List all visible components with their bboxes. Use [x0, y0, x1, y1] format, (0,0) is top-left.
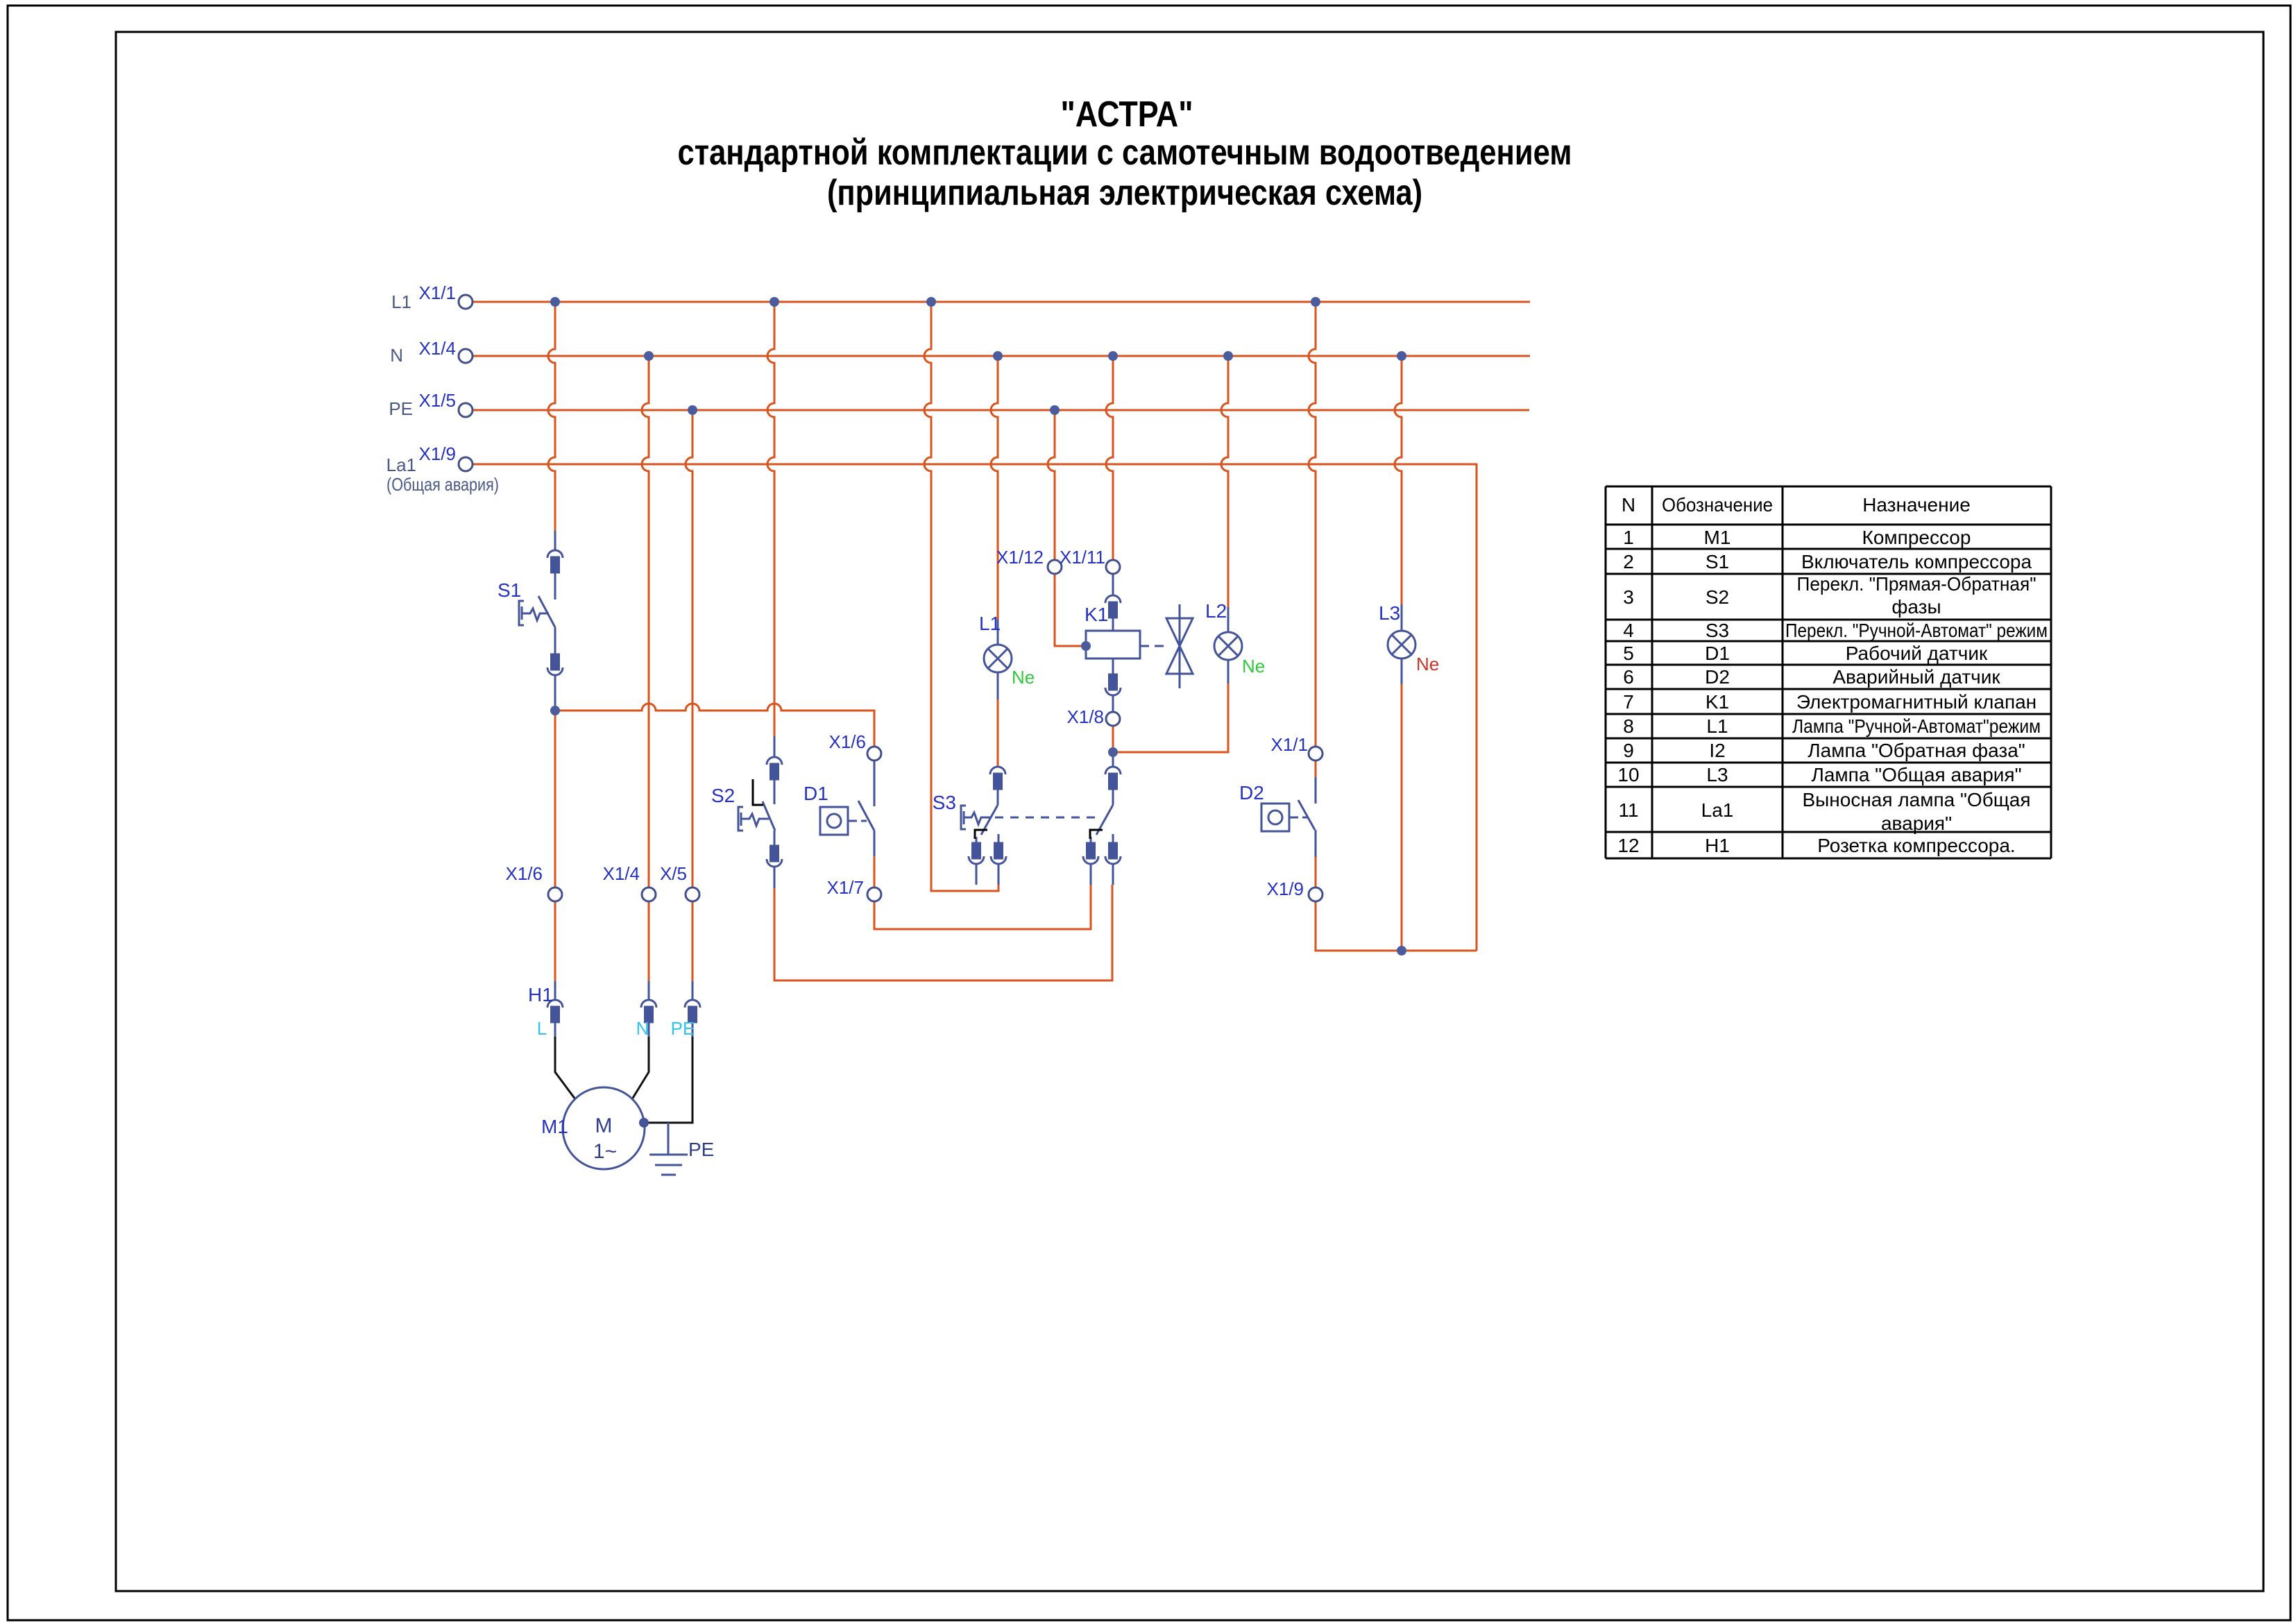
svg-text:"АСТРА": "АСТРА": [1061, 94, 1193, 135]
wire bus La1 with drop to bottom alarm rail: [473, 464, 1477, 951]
svg-text:D2: D2: [1239, 782, 1264, 804]
svg-text:стандартной комплектации с сам: стандартной комплектации с самотечным во…: [678, 133, 1572, 173]
svg-text:L1: L1: [979, 613, 1001, 634]
wire drop x=1342 L1 to S3 left pole contact (hops N,PE,La1): [924, 302, 998, 891]
svg-text:X1/4: X1/4: [419, 338, 457, 359]
node motor PE: [639, 1118, 649, 1128]
node K1 coil left: [1081, 641, 1091, 651]
svg-text:D2: D2: [1705, 666, 1730, 688]
svg-text:6: 6: [1623, 666, 1634, 688]
svg-text:Лампа "Ручной-Автомат"режим: Лампа "Ручной-Автомат"режим: [1792, 715, 2041, 737]
title: [678, 94, 1572, 213]
svg-text:N: N: [1622, 494, 1635, 516]
ground PE: [649, 1123, 688, 1175]
wire drop x=800 L1 to S1 (hops over N,PE,La1): [548, 302, 555, 531]
switch S2: [738, 736, 782, 888]
svg-text:Розетка компрессора.: Розетка компрессора.: [1817, 835, 2015, 856]
terminal X/5 left: [686, 887, 699, 901]
terminal X1/11: [1106, 560, 1120, 574]
svg-text:K1: K1: [1706, 691, 1729, 713]
node L1-S1: [550, 297, 560, 307]
connector H1 phase: [547, 981, 563, 1022]
node N-L1: [993, 351, 1003, 361]
terminal X1/6 D1: [867, 747, 881, 760]
node L1-D2: [1311, 297, 1320, 307]
wire X1/7 to S3 right pole first contact: [874, 856, 1091, 929]
svg-text:N: N: [636, 1018, 649, 1039]
svg-text:D1: D1: [1705, 643, 1730, 664]
terminal X1/9 D2: [1309, 887, 1323, 901]
wire drop x=1116 L1 to S2 (hops N,PE,La1): [767, 302, 774, 736]
svg-text:X1/5: X1/5: [419, 390, 457, 411]
terminal X1/7: [867, 887, 881, 901]
svg-text:S1: S1: [1706, 551, 1729, 572]
svg-text:7: 7: [1623, 691, 1634, 713]
lamp L2: [1214, 607, 1242, 683]
wire X1/8 to node below: [1112, 726, 1114, 752]
svg-text:Рабочий датчик: Рабочий датчик: [1846, 643, 1988, 664]
switch S1: [519, 531, 563, 707]
sensor D2: [1261, 777, 1316, 857]
node N-X1/4: [644, 351, 654, 361]
svg-text:5: 5: [1623, 643, 1634, 664]
wire D2 to X1/9 and alarm rail: [1316, 857, 1477, 951]
node PE-X1/12: [1050, 405, 1060, 415]
wire drop x=1604 N to X1/11 (hops PE,La1): [1106, 356, 1113, 560]
wire drop x=1438 N to lamp L1 (hops PE,La1): [991, 356, 998, 620]
svg-text:S3: S3: [1706, 620, 1729, 641]
svg-text:Лампа "Обратная фаза": Лампа "Обратная фаза": [1808, 740, 2025, 761]
node L1-S2: [769, 297, 779, 307]
wire lamp L1 bottom to S3 left pole top: [997, 699, 999, 767]
svg-text:M: M: [595, 1114, 613, 1137]
svg-text:D1: D1: [803, 783, 828, 804]
svg-text:Перекл. "Прямая-Обратная": Перекл. "Прямая-Обратная": [1797, 573, 2036, 595]
svg-text:X1/1: X1/1: [1271, 734, 1309, 755]
svg-text:M1: M1: [541, 1116, 568, 1137]
terminal X1/1 D2: [1309, 747, 1323, 760]
svg-text:2: 2: [1623, 551, 1634, 572]
svg-text:Выносная лампа "Общая: Выносная лампа "Общая: [1802, 789, 2030, 810]
svg-text:H1: H1: [528, 984, 553, 1005]
svg-text:S2: S2: [711, 785, 735, 806]
svg-text:L2: L2: [1205, 600, 1227, 622]
wire drop x=935 N to X1/4 and H1 (hops PE,La1): [642, 356, 649, 981]
sensor D1: [820, 760, 874, 856]
wire H1 to motor black leads: [555, 1037, 692, 1123]
svg-text:3: 3: [1623, 586, 1634, 608]
svg-text:X1/7: X1/7: [827, 877, 865, 898]
svg-text:фазы: фазы: [1891, 596, 1941, 618]
terminal X1/4 bus: [459, 349, 473, 363]
terminal X1/1 bus: [459, 295, 473, 309]
svg-text:(Общая авария): (Общая авария): [386, 474, 499, 495]
svg-text:L1: L1: [391, 291, 411, 312]
wire drop x=1896 L1 to X1/1 D2 branch (hops N,PE,La1): [1309, 302, 1316, 777]
terminal X1/6 left: [548, 887, 562, 901]
wire lamp L3 bottom to alarm rail: [1401, 684, 1403, 951]
wire H1 blue stubs: [555, 1022, 692, 1037]
svg-text:Электромагнитный клапан: Электромагнитный клапан: [1796, 691, 2036, 713]
svg-text:4: 4: [1623, 620, 1634, 641]
S3 latch hooks: [975, 830, 1103, 839]
svg-text:Перекл. "Ручной-Автомат" режим: Перекл. "Ручной-Автомат" режим: [1785, 620, 2048, 641]
wire drop x=998 PE to X/5 and H1 (hops La1): [686, 410, 692, 981]
terminal X1/8: [1106, 712, 1120, 726]
svg-text:(принципиальная электрическая: (принципиальная электрическая схема): [827, 173, 1422, 213]
svg-text:S3: S3: [933, 792, 956, 813]
wire bus N: [473, 355, 1530, 357]
svg-text:K1: K1: [1085, 604, 1108, 625]
node L3 alarm rail: [1397, 946, 1406, 955]
svg-text:8: 8: [1623, 715, 1634, 737]
terminal X1/4 left: [642, 887, 656, 901]
svg-text:PE: PE: [389, 398, 413, 419]
svg-text:N: N: [390, 345, 403, 366]
svg-text:1~: 1~: [593, 1140, 617, 1163]
wire drop x=2020 N to lamp L3 (hops PE,La1): [1395, 356, 1402, 604]
svg-text:X1/1: X1/1: [419, 282, 457, 303]
wire S2 bottom to S3 right pole second contact: [774, 885, 1112, 980]
svg-text:Включатель компрессора: Включатель компрессора: [1801, 551, 2032, 572]
svg-text:PE: PE: [671, 1018, 695, 1039]
svg-text:S1: S1: [498, 579, 521, 601]
node PE-X/5: [688, 405, 697, 415]
svg-text:Аварийный датчик: Аварийный датчик: [1832, 666, 2000, 688]
node X1/8 junction: [1108, 747, 1118, 757]
node S1 branch: [550, 706, 560, 715]
svg-text:Лампа "Общая авария": Лампа "Общая авария": [1811, 764, 2021, 785]
wire S1 to terminal X1/6 and to H1: [554, 711, 556, 981]
relay coil K1: [1086, 574, 1167, 712]
svg-text:L3: L3: [1706, 764, 1728, 785]
svg-text:PE: PE: [688, 1139, 714, 1160]
lamp L1: [984, 620, 1012, 699]
terminal X1/5 bus: [459, 403, 473, 417]
wire bus L1: [473, 301, 1530, 303]
svg-text:11: 11: [1618, 799, 1638, 821]
svg-text:авария": авария": [1881, 813, 1952, 834]
svg-text:X1/6: X1/6: [506, 863, 543, 884]
svg-text:L3: L3: [1379, 602, 1400, 624]
svg-text:Компрессор: Компрессор: [1862, 527, 1971, 548]
svg-text:1: 1: [1623, 527, 1634, 548]
svg-text:Ne: Ne: [1416, 654, 1439, 674]
svg-text:M1: M1: [1704, 527, 1731, 548]
svg-text:H1: H1: [1705, 835, 1730, 856]
svg-text:Назначение: Назначение: [1862, 494, 1971, 516]
motor M1: [563, 1087, 645, 1169]
wire bus PE: [473, 409, 1529, 411]
svg-text:X1/9: X1/9: [1267, 878, 1304, 899]
svg-text:10: 10: [1617, 764, 1639, 785]
connector H1 earth: [685, 981, 700, 1022]
svg-text:Ne: Ne: [1242, 656, 1265, 677]
svg-text:9: 9: [1623, 740, 1634, 761]
svg-text:S2: S2: [1706, 586, 1729, 608]
svg-text:Ne: Ne: [1012, 667, 1035, 688]
wire lamp L2 bottom to X1/8 node: [1113, 683, 1228, 752]
svg-text:X1/12: X1/12: [996, 547, 1044, 568]
svg-text:X1/9: X1/9: [419, 443, 457, 464]
solenoid valve: [1166, 604, 1193, 688]
lamp L3: [1388, 604, 1415, 684]
node N-L2: [1223, 351, 1233, 361]
svg-text:L1: L1: [1706, 715, 1728, 737]
svg-text:L: L: [537, 1018, 547, 1039]
node N-K1: [1108, 351, 1118, 361]
svg-text:X/5: X/5: [660, 863, 687, 884]
wire S1 node to D1 X1/6 (hops over drops 935,998,1116): [555, 704, 874, 747]
terminal X1/9 bus: [459, 457, 473, 471]
svg-text:X1/11: X1/11: [1060, 547, 1105, 568]
switch S3 two-pole: [961, 752, 1121, 885]
node L1-S3: [926, 297, 936, 307]
svg-text:La1: La1: [1701, 799, 1734, 821]
wire drop x=1770 N to lamp L2 (hops PE,La1): [1221, 356, 1228, 607]
svg-text:Обозначение: Обозначение: [1662, 494, 1773, 516]
svg-text:La1: La1: [386, 454, 416, 475]
terminal X1/12: [1048, 560, 1062, 574]
svg-text:X1/8: X1/8: [1067, 706, 1105, 727]
node N-L3: [1397, 351, 1406, 361]
wire drop x=1520 PE to X1/12 and K1 coil (hops La1): [1048, 410, 1086, 646]
svg-text:X1/4: X1/4: [603, 863, 640, 884]
S2 latch hook: [753, 779, 763, 805]
svg-text:I2: I2: [1709, 740, 1725, 761]
svg-text:12: 12: [1617, 835, 1639, 856]
svg-text:X1/6: X1/6: [829, 731, 867, 752]
connector H1 neutral: [641, 981, 656, 1022]
legend table: [1606, 486, 2051, 858]
